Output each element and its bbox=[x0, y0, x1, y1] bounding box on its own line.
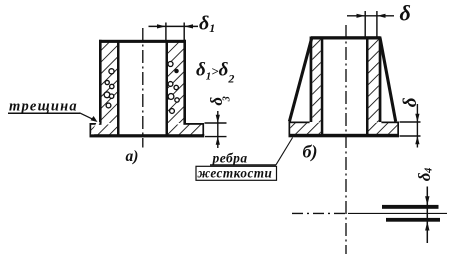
svg-text:δ: δ bbox=[400, 1, 411, 26]
svg-text:б): б) bbox=[303, 142, 318, 163]
svg-text:а): а) bbox=[126, 148, 139, 165]
svg-text:ребра: ребра bbox=[212, 151, 248, 166]
svg-text:3: 3 bbox=[222, 96, 233, 102]
svg-text:жесткости: жесткости bbox=[198, 166, 273, 181]
svg-text:4: 4 bbox=[424, 168, 435, 174]
svg-text:δ: δ bbox=[400, 97, 421, 107]
svg-text:трещина: трещина bbox=[9, 99, 78, 115]
